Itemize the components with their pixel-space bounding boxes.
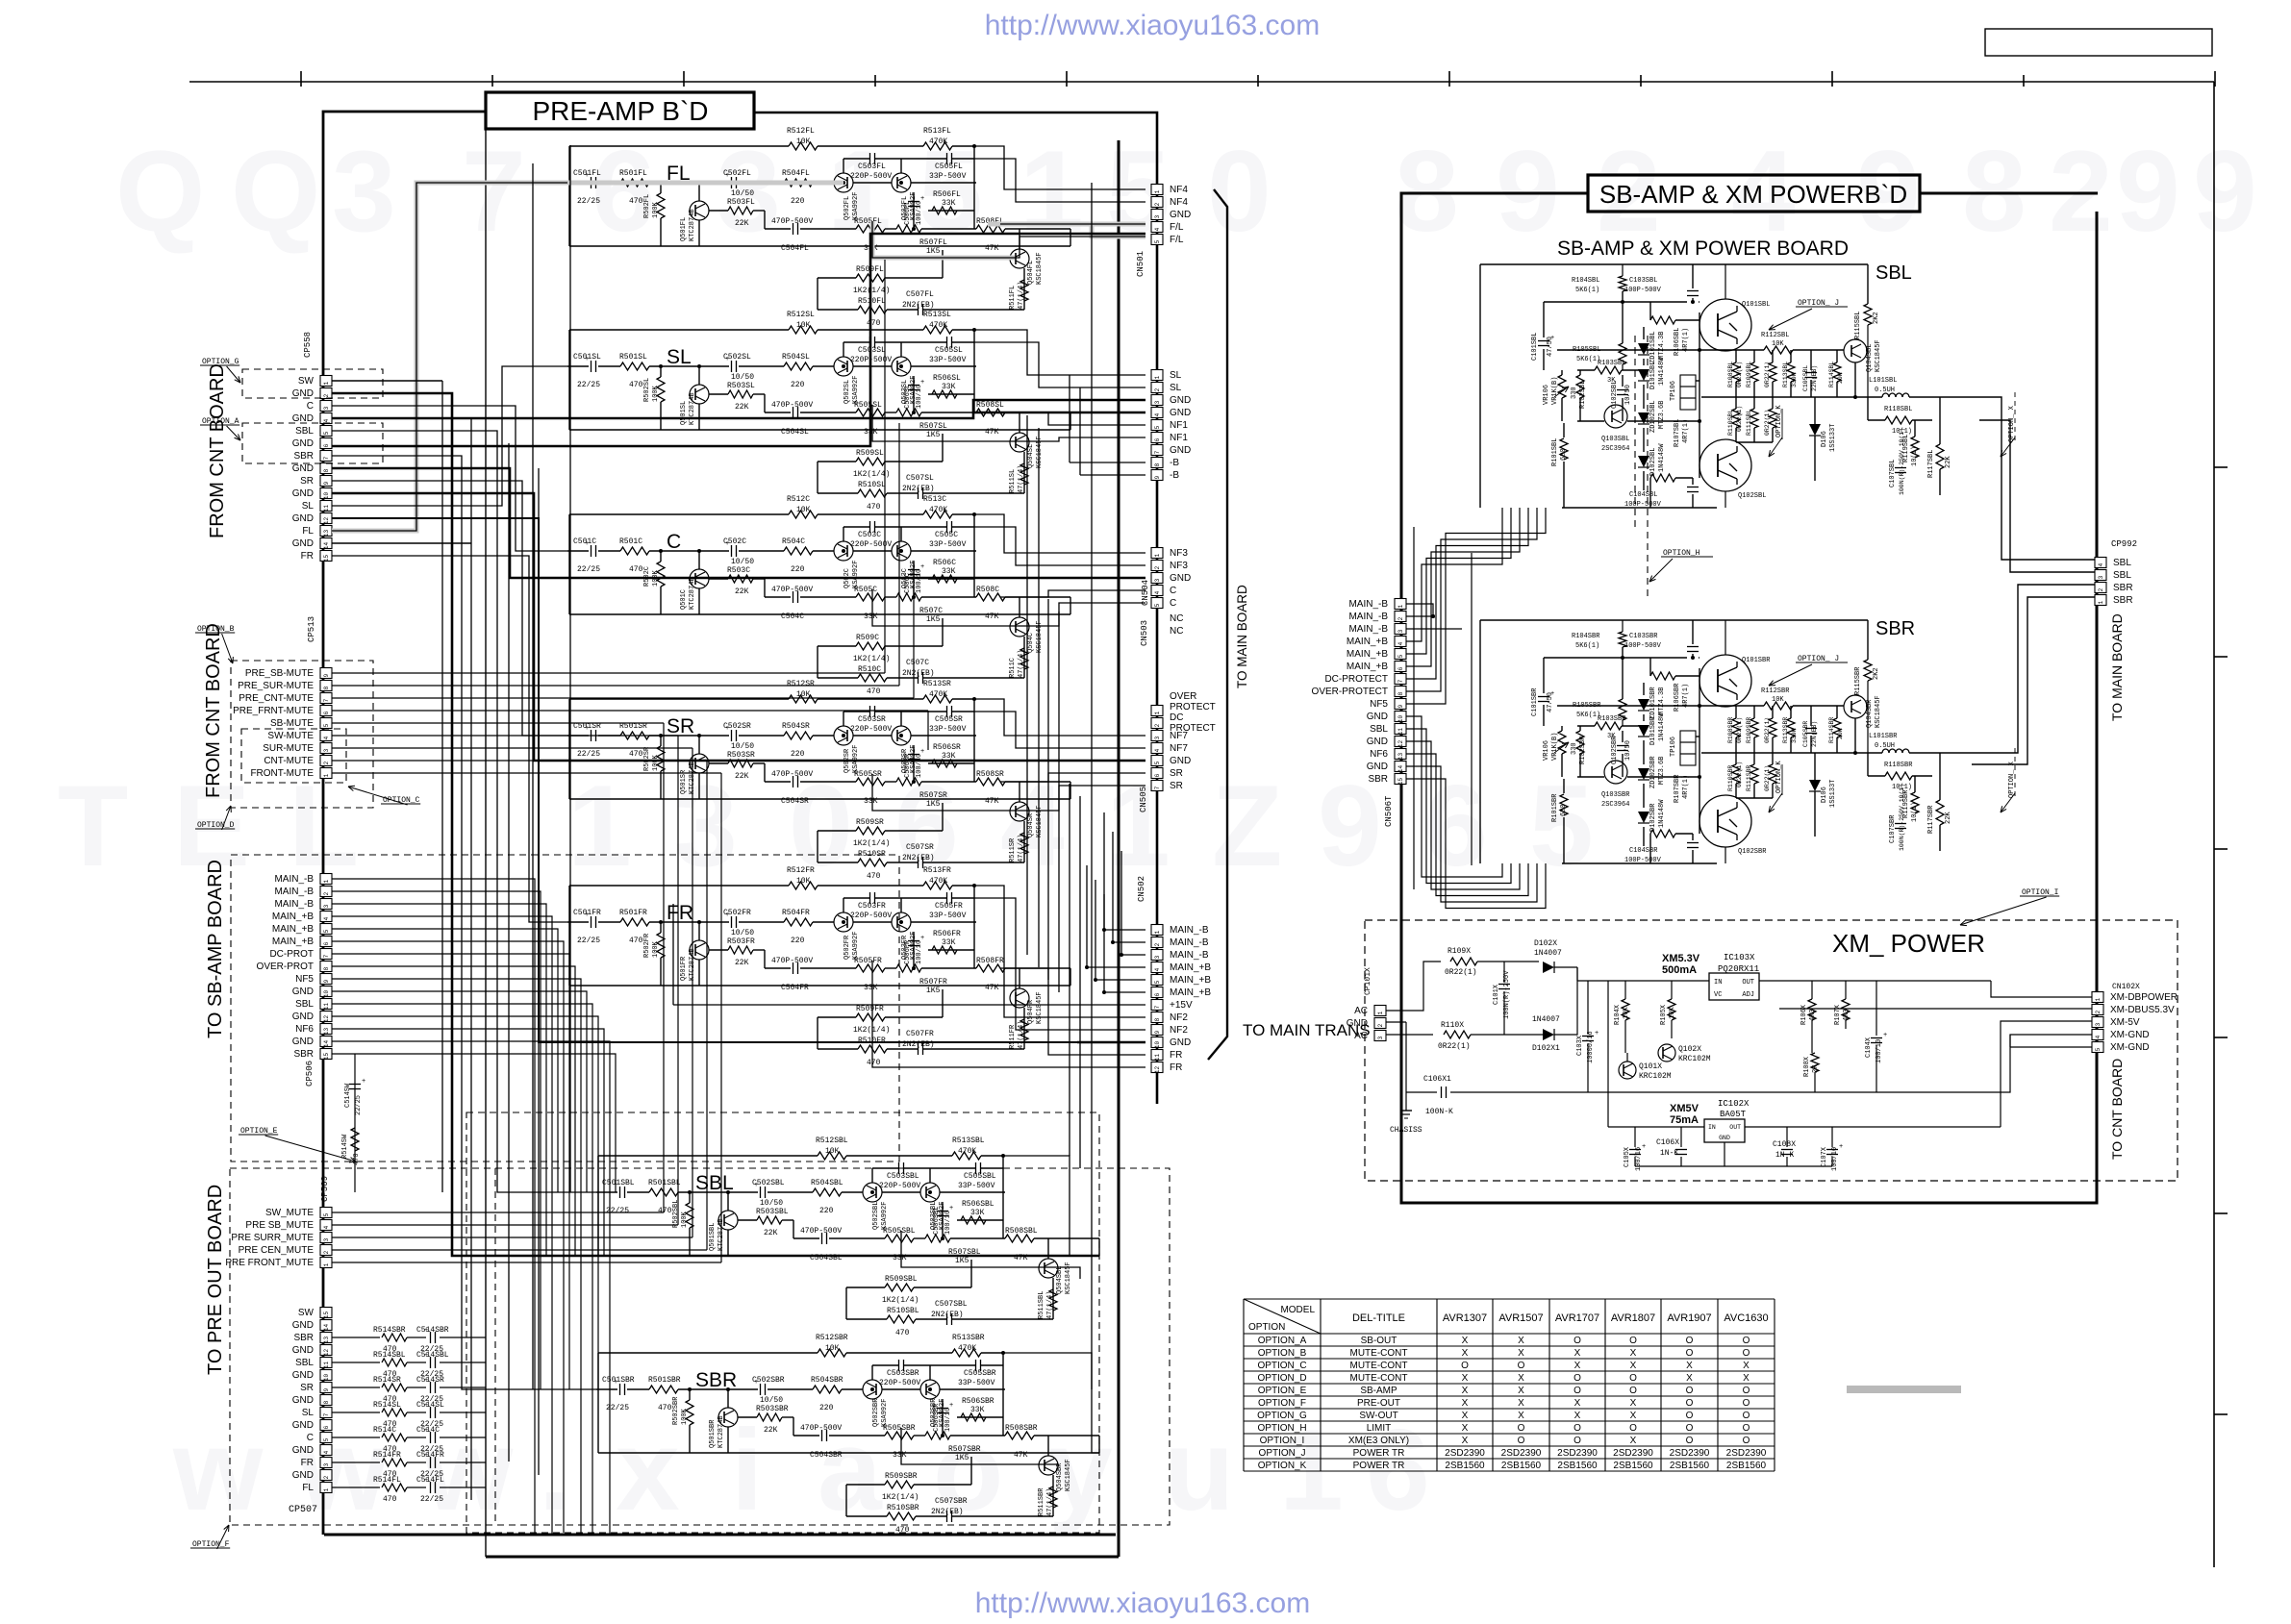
transistor Q503FR: [892, 912, 911, 932]
svg-text:X: X: [1518, 1336, 1524, 1346]
PRE-AMP board outline: [323, 112, 486, 375]
capacitor C505SBR: [975, 1360, 977, 1371]
svg-text:2SB1560: 2SB1560: [1501, 1461, 1542, 1471]
svg-text:XM(E3 ONLY): XM(E3 ONLY): [1348, 1436, 1409, 1446]
TO PRE OUT BOARD dashed box: [230, 1168, 1170, 1525]
svg-text:NF6: NF6: [1370, 749, 1388, 760]
capacitor C504FR: [793, 962, 794, 974]
svg-text:X: X: [1686, 1361, 1693, 1371]
svg-text:13: 13: [1397, 753, 1404, 761]
svg-text:R512SBR: R512SBR: [816, 1334, 848, 1342]
inductor L101SBL: [1882, 393, 1889, 397]
resistor R503SBR: [757, 1413, 782, 1421]
svg-text:33P-500V: 33P-500V: [929, 725, 967, 734]
resistor R502SBR: [686, 1400, 693, 1425]
svg-text:1: 1: [1377, 1011, 1384, 1014]
svg-text:1: 1: [323, 1487, 330, 1491]
svg-text:100K: 100K: [652, 754, 660, 771]
resistor R512FL: [789, 142, 818, 150]
wire FR outputs to CN502: [974, 886, 1145, 1017]
svg-text:KTC2874B: KTC2874B: [689, 577, 696, 610]
svg-text:SUR-MUTE: SUR-MUTE: [263, 743, 314, 754]
wire CP558 pin14 GND stub: [332, 542, 471, 544]
svg-text:R505SR: R505SR: [854, 770, 882, 779]
svg-text:GND: GND: [292, 1395, 314, 1406]
svg-text:4: 4: [1154, 967, 1161, 971]
svg-text:15: 15: [1397, 778, 1404, 786]
svg-text:PRE_SUR-MUTE: PRE_SUR-MUTE: [238, 681, 314, 691]
resistor R114SBR: [1833, 718, 1841, 737]
svg-text:75mA: 75mA: [1670, 1114, 1699, 1126]
svg-text:47/50: 47/50: [1547, 692, 1554, 712]
svg-text:4: 4: [2095, 1035, 2102, 1038]
svg-text:470: 470: [629, 565, 643, 574]
svg-text:T: T: [58, 762, 128, 890]
svg-text:IN: IN: [1714, 979, 1722, 987]
svg-text:KSA992F: KSA992F: [852, 745, 860, 773]
svg-text:330: 330: [1571, 742, 1578, 755]
svg-text:C503FL: C503FL: [858, 162, 886, 171]
svg-text:SB-MUTE: SB-MUTE: [270, 718, 314, 729]
svg-text:C506SBL: C506SBL: [933, 1207, 941, 1235]
svg-text:R514SR: R514SR: [373, 1376, 401, 1385]
svg-text:R118SBL: R118SBL: [1884, 406, 1912, 413]
svg-text:3: 3: [1154, 955, 1161, 959]
main 5.3V rail: [1577, 980, 1709, 982]
svg-text:SBR: SBR: [695, 1369, 737, 1391]
svg-text:22K: 22K: [735, 587, 749, 596]
svg-text:GND: GND: [1170, 756, 1191, 766]
svg-text:ADJ: ADJ: [1742, 991, 1754, 999]
transistor Q504SBL: [1039, 1259, 1058, 1278]
svg-text:C502SL: C502SL: [723, 353, 751, 362]
svg-text:470K: 470K: [929, 137, 947, 146]
capacitor C503C: [869, 521, 871, 533]
svg-text:C505SBL: C505SBL: [964, 1172, 996, 1181]
capacitor C503FL: [869, 153, 871, 164]
capacitor C507FR: [918, 1043, 919, 1055]
svg-text:GND: GND: [1170, 210, 1191, 220]
capacitor C504SBL: [821, 1233, 823, 1244]
svg-text:O: O: [1686, 1398, 1694, 1409]
svg-text:R503FR: R503FR: [727, 937, 755, 946]
capacitor C107SBR: [1895, 823, 1906, 825]
capacitor C514SBL: [407, 1362, 426, 1363]
svg-text:R514SW: R514SW: [341, 1134, 349, 1159]
C channel amplifier block: [567, 550, 589, 552]
svg-text:6: 6: [1154, 437, 1161, 441]
svg-text:1N4148W: 1N4148W: [1658, 712, 1666, 741]
diode D101SBL: [1638, 369, 1649, 381]
resistor R508SR: [976, 778, 1005, 786]
resistor R508SBR: [1005, 1432, 1034, 1439]
svg-text:C504SR: C504SR: [781, 797, 809, 806]
svg-text:NF1: NF1: [1170, 420, 1188, 431]
resistor R512SBL: [818, 1152, 846, 1160]
svg-text:5: 5: [1154, 980, 1161, 984]
svg-text:10K: 10K: [796, 506, 811, 514]
svg-text:2SD2390: 2SD2390: [1613, 1448, 1653, 1459]
capacitor C501SBL: [619, 1187, 621, 1198]
svg-text:C101SBL: C101SBL: [1531, 333, 1539, 361]
svg-text:470: 470: [867, 319, 881, 328]
svg-text:Q501FR: Q501FR: [680, 956, 688, 981]
svg-text:MAIN_+B: MAIN_+B: [272, 937, 314, 947]
capacitor C501SBR: [619, 1384, 621, 1395]
svg-text:R513SBR: R513SBR: [952, 1334, 985, 1342]
svg-text:R514SL: R514SL: [373, 1401, 401, 1410]
svg-text:OPTION_J: OPTION_J: [1259, 1448, 1306, 1459]
transistor Q103SBR: [1604, 761, 1627, 784]
svg-text:470: 470: [629, 381, 643, 389]
svg-text:1: 1: [2098, 600, 2104, 604]
resistor R105SBR: [1619, 699, 1626, 720]
resistor R103SBR: [1595, 722, 1622, 730]
svg-text:1K2(1/4): 1K2(1/4): [853, 1026, 890, 1035]
svg-text:100K: 100K: [681, 1211, 689, 1228]
resistor R514SBL: [332, 1362, 380, 1363]
svg-text:MAIN_+B: MAIN_+B: [1347, 649, 1388, 660]
svg-text:100K: 100K: [681, 1408, 689, 1425]
svg-text:F/L: F/L: [1170, 235, 1184, 245]
svg-text:7: 7: [1154, 786, 1161, 789]
svg-text:33K: 33K: [942, 752, 956, 761]
svg-text:X: X: [1462, 1336, 1469, 1346]
capacitor C104X: [1871, 1037, 1882, 1039]
svg-text:R114SBR: R114SBR: [1828, 717, 1835, 743]
svg-text:5: 5: [323, 723, 330, 727]
svg-text:x: x: [616, 1406, 680, 1535]
svg-text:1K2(1/4): 1K2(1/4): [882, 1493, 919, 1502]
svg-text:R508SR: R508SR: [976, 770, 1004, 779]
svg-text:33K: 33K: [970, 1209, 985, 1217]
svg-text:POWER TR: POWER TR: [1353, 1461, 1405, 1471]
svg-text:+: +: [1883, 1032, 1887, 1039]
svg-text:KTC2874B: KTC2874B: [689, 209, 696, 241]
svg-text:GND: GND: [292, 463, 314, 474]
svg-text:R504FL: R504FL: [782, 169, 810, 178]
diode D102X1: [1543, 1029, 1554, 1040]
svg-text:R504C: R504C: [782, 537, 805, 546]
resistor R104SBR: [1619, 632, 1626, 647]
svg-text:0R22(1): 0R22(1): [1736, 762, 1743, 787]
svg-text:1: 1: [1397, 604, 1404, 608]
svg-text:Q504SL: Q504SL: [1027, 444, 1035, 468]
capacitor C514SL: [407, 1412, 426, 1413]
mute bus verticals: [663, 723, 665, 1212]
resistor R107SBL: [1650, 474, 1675, 482]
capacitor C514SR: [407, 1387, 426, 1388]
svg-text:SR: SR: [667, 715, 694, 737]
wire FR input feed: [332, 556, 567, 922]
svg-text:47K: 47K: [985, 612, 999, 621]
svg-text:SB-OUT: SB-OUT: [1361, 1336, 1397, 1346]
transistor Q103SBL: [1604, 405, 1627, 428]
svg-text:2: 2: [1154, 202, 1161, 206]
svg-text:C505FR: C505FR: [935, 902, 963, 911]
svg-text:KSC1845F: KSC1845F: [1065, 1459, 1072, 1491]
svg-text:1K5: 1K5: [926, 247, 941, 256]
svg-text:CHASISS: CHASISS: [1390, 1126, 1422, 1135]
svg-text:R110SBR: R110SBR: [1727, 765, 1734, 791]
svg-text:9: 9: [323, 979, 330, 983]
svg-text:470P-500V: 470P-500V: [771, 401, 813, 410]
svg-text:Q502FL: Q502FL: [843, 196, 851, 220]
capacitor C506SR: [908, 754, 919, 756]
svg-text:C507SBL: C507SBL: [935, 1300, 968, 1309]
svg-text:OUT: OUT: [1742, 979, 1754, 987]
svg-text:OVER-PROTECT: OVER-PROTECT: [1312, 687, 1388, 697]
svg-text:R501FL: R501FL: [619, 169, 647, 178]
svg-text:R513C: R513C: [923, 495, 946, 504]
FL channel amplifier block: [567, 182, 589, 184]
lower resistor bank SBL: [1732, 409, 1740, 428]
resistor R102SBR: [1576, 731, 1584, 754]
resistor R514FR: [332, 1462, 380, 1463]
zener ZD102SBL: [1638, 412, 1649, 424]
svg-text:R115SBR: R115SBR: [1854, 666, 1862, 695]
transistor Q501FL: [690, 201, 709, 220]
power transistor Q102SBL: [1699, 439, 1751, 491]
svg-text:C108X: C108X: [1773, 1140, 1796, 1149]
svg-text:OPTION_E: OPTION_E: [1258, 1386, 1307, 1396]
svg-text:47K: 47K: [985, 984, 999, 992]
svg-text:8: 8: [323, 966, 330, 970]
resistor R509FR: [856, 1013, 885, 1021]
resistor R503SL: [728, 390, 753, 398]
svg-text:SW: SW: [298, 1308, 315, 1318]
capacitor C502SR: [731, 730, 733, 741]
inductor L101SBR: [1882, 749, 1889, 753]
svg-text:10: 10: [1154, 1041, 1161, 1049]
svg-text:PRE_FRNT-MUTE: PRE_FRNT-MUTE: [233, 706, 314, 716]
svg-text:C107SBL: C107SBL: [1889, 460, 1897, 487]
svg-text:O: O: [1743, 1348, 1750, 1359]
capacitor C514SW: [354, 1054, 356, 1192]
svg-text:4R7(1): 4R7(1): [1682, 684, 1690, 708]
connector CN503: [1151, 548, 1163, 559]
svg-text:1: 1: [1154, 189, 1161, 193]
inner dashed divider: [494, 1168, 496, 1525]
transistor Q503C: [892, 541, 911, 561]
resistor R104SBL: [1619, 276, 1626, 291]
svg-text:R117SBL: R117SBL: [1927, 450, 1935, 478]
resistor R106X: [1808, 999, 1816, 1020]
svg-text:NF3: NF3: [1170, 561, 1188, 571]
svg-text:10K: 10K: [825, 1344, 840, 1353]
svg-text:2: 2: [2098, 587, 2104, 591]
resistor R507SL: [896, 409, 921, 416]
svg-text:20K: 20K: [1837, 372, 1844, 384]
svg-text:C507SBR: C507SBR: [935, 1497, 968, 1506]
svg-text:0.5UH: 0.5UH: [1875, 387, 1895, 394]
svg-text:C514FR: C514FR: [416, 1451, 444, 1460]
svg-text:CNT-MUTE: CNT-MUTE: [264, 756, 314, 766]
svg-text:47K: 47K: [985, 244, 999, 253]
svg-text:X: X: [1462, 1386, 1469, 1396]
capacitor C503SBR: [898, 1360, 900, 1371]
svg-text:4R7(1): 4R7(1): [1682, 419, 1690, 443]
svg-text:470P-500V: 470P-500V: [771, 957, 813, 965]
svg-text:C105SBR: C105SBR: [1802, 721, 1809, 747]
svg-text:100N(R)-250V 10(1): 100N(R)-250V 10(1): [1899, 428, 1905, 495]
svg-text:PRE FRONT_MUTE: PRE FRONT_MUTE: [225, 1258, 314, 1268]
svg-text:X: X: [1462, 1411, 1469, 1421]
svg-text:O: O: [1573, 1373, 1581, 1384]
resistor R513C: [923, 511, 952, 518]
resistor R507SBL: [925, 1235, 950, 1242]
svg-text:XM-5V: XM-5V: [2110, 1017, 2140, 1028]
svg-text:330K: 330K: [1791, 728, 1798, 743]
svg-text:R508SBR: R508SBR: [1005, 1424, 1038, 1433]
svg-text:SB-AMP: SB-AMP: [1360, 1386, 1397, 1396]
svg-text:8: 8: [323, 1400, 330, 1404]
svg-text:470: 470: [658, 1207, 672, 1215]
svg-text:Q104SBL: Q104SBL: [1866, 344, 1874, 372]
svg-text:R109SBR: R109SBR: [1746, 717, 1752, 743]
svg-text:C502SR: C502SR: [723, 722, 751, 731]
svg-text:R505C: R505C: [854, 586, 877, 594]
svg-text:OUT: OUT: [1729, 1124, 1741, 1131]
svg-text:MAIN_+B: MAIN_+B: [1170, 987, 1211, 998]
svg-text:GND: GND: [1170, 573, 1191, 584]
svg-text:PRE CEN_MUTE: PRE CEN_MUTE: [239, 1245, 315, 1256]
resistor R505FR: [856, 964, 885, 972]
svg-text:R111SBL: R111SBL: [1746, 410, 1752, 436]
svg-text:KTC2874B: KTC2874B: [718, 1415, 725, 1448]
svg-text:C506SR: C506SR: [904, 753, 912, 778]
svg-text:7: 7: [323, 1412, 330, 1416]
resistor R509SBR: [885, 1481, 914, 1488]
resistor R509SBL: [885, 1284, 914, 1291]
svg-text:SBL: SBL: [2113, 570, 2131, 581]
svg-text:X: X: [1574, 1398, 1581, 1409]
svg-text:33P-500V: 33P-500V: [929, 912, 967, 920]
svg-text:2: 2: [1154, 565, 1161, 569]
resistor R118SBL: [1885, 416, 1912, 424]
svg-text:2SB1560: 2SB1560: [1726, 1461, 1767, 1471]
svg-text:4: 4: [2098, 562, 2104, 566]
svg-text:7: 7: [1154, 1005, 1161, 1009]
svg-text:1SS133T: 1SS133T: [1829, 780, 1837, 808]
svg-text:7: 7: [323, 698, 330, 702]
svg-text:C: C: [307, 1433, 314, 1443]
svg-text:O: O: [1629, 1336, 1637, 1346]
svg-text:GND: GND: [292, 1345, 314, 1356]
svg-text:9: 9: [1397, 704, 1404, 708]
svg-text:1: 1: [2095, 997, 2102, 1001]
svg-text:R509SBR: R509SBR: [885, 1472, 918, 1481]
svg-text:R508FR: R508FR: [976, 957, 1004, 965]
svg-text:100/10: 100/10: [944, 1211, 952, 1235]
svg-text:R512SR: R512SR: [787, 680, 815, 688]
transistor Q501SBR: [718, 1408, 738, 1427]
svg-text:NF4: NF4: [1170, 185, 1188, 195]
resistor R511SBR: [1049, 1487, 1057, 1508]
resistor R505SL: [856, 409, 885, 416]
svg-text:C105X: C105X: [1624, 1146, 1631, 1167]
svg-text:470: 470: [629, 937, 643, 945]
svg-text:C502FL: C502FL: [723, 169, 751, 178]
GND bold wire to CN502: [332, 518, 1077, 1042]
svg-text:SBR: SBR: [293, 1049, 314, 1060]
svg-text:4K3: 4K3: [1809, 1009, 1817, 1021]
svg-text:470K: 470K: [958, 1147, 976, 1156]
svg-text:FROM CNT BOARD: FROM CNT BOARD: [207, 363, 228, 538]
transistor Q503FL: [892, 173, 911, 192]
resistor R506SBR: [961, 1413, 986, 1421]
svg-text:13: 13: [323, 530, 330, 537]
svg-text:8: 8: [323, 686, 330, 689]
diode D106: [1809, 424, 1821, 436]
transistor Q503SBL: [920, 1183, 940, 1202]
svg-text:470: 470: [353, 1153, 361, 1165]
svg-text:SB-AMP & XM POWERB`D: SB-AMP & XM POWERB`D: [1599, 180, 1907, 209]
svg-text:R509FR: R509FR: [856, 1005, 884, 1013]
power transistor Q101SBL: [1699, 299, 1751, 351]
resistor R501SBL: [649, 1188, 678, 1196]
svg-text:GND: GND: [292, 488, 314, 499]
svg-text:O: O: [1573, 1423, 1581, 1434]
svg-text:Q502FR: Q502FR: [843, 935, 851, 960]
capacitor C506FR: [908, 940, 919, 942]
resistor R508C: [976, 593, 1005, 601]
resistor R501C: [620, 547, 649, 555]
svg-text:1K5: 1K5: [926, 431, 941, 439]
svg-text:470: 470: [895, 1526, 910, 1535]
svg-text:OVER-PROT: OVER-PROT: [257, 962, 314, 972]
svg-text:GND: GND: [1367, 737, 1388, 747]
svg-text:R105X: R105X: [1660, 1004, 1668, 1025]
svg-text:FR: FR: [1170, 1050, 1182, 1061]
svg-text:5: 5: [1154, 761, 1161, 764]
svg-text:R109SBL: R109SBL: [1746, 362, 1752, 387]
svg-text:9: 9: [1154, 1030, 1161, 1034]
svg-text:5K6(1): 5K6(1): [1575, 642, 1599, 650]
svg-text:O: O: [1743, 1336, 1750, 1346]
svg-text:470: 470: [867, 872, 881, 881]
svg-text:R111SBR: R111SBR: [1746, 765, 1752, 791]
resistor R502C: [657, 562, 665, 587]
resistor R506FR: [932, 946, 957, 954]
resistor R507SR: [896, 778, 921, 786]
svg-text:R105SBR: R105SBR: [1573, 702, 1601, 710]
svg-text:R110SBL: R110SBL: [1727, 410, 1734, 436]
svg-text:SBR: SBR: [1876, 618, 1915, 639]
GND bold wire to CN503: [332, 468, 1145, 578]
svg-text:MAIN_+B: MAIN_+B: [272, 912, 314, 922]
capacitor C505SBL: [975, 1162, 977, 1174]
svg-text:-B: -B: [1170, 458, 1179, 468]
svg-text:9: 9: [2116, 127, 2180, 256]
svg-text:R512FL: R512FL: [787, 127, 815, 136]
transistor Q502FL: [834, 173, 853, 192]
svg-text:SBR: SBR: [2113, 583, 2133, 593]
svg-text:R110X: R110X: [1441, 1021, 1464, 1030]
svg-text:NF2: NF2: [1170, 1012, 1188, 1023]
svg-text:GND: GND: [1367, 762, 1388, 772]
svg-text:0.5UH: 0.5UH: [1875, 742, 1895, 750]
resistor R506C: [932, 575, 957, 583]
svg-text:O: O: [1518, 1436, 1525, 1446]
svg-text:XM5.3V: XM5.3V: [1662, 953, 1700, 964]
svg-text:CN502: CN502: [1137, 876, 1146, 902]
capacitor C507SBL: [946, 1313, 948, 1325]
capacitor C501FL: [591, 177, 592, 188]
svg-text:10(1): 10(1): [1911, 802, 1919, 822]
svg-text:12: 12: [1154, 1066, 1161, 1074]
svg-text:C503SBR: C503SBR: [887, 1369, 919, 1378]
